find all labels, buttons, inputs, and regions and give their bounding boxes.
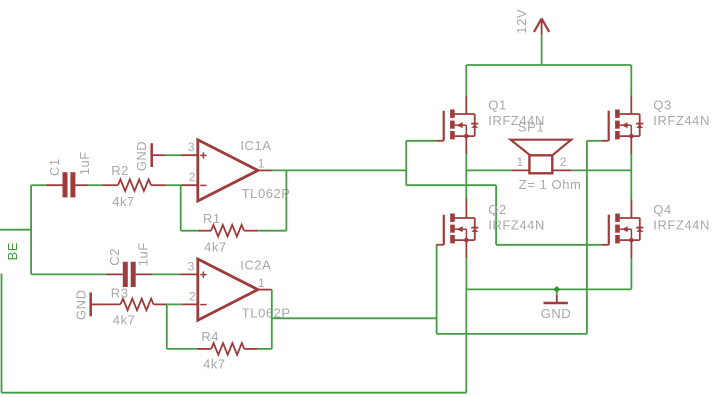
- wire C1 to R2: [88, 184, 103, 186]
- wire C2 to IC2A pin3: [152, 273, 179, 275]
- svg-text:IC1A: IC1A: [240, 138, 271, 153]
- wire 12V stem: [541, 35, 543, 65]
- svg-text:TL062P: TL062P: [242, 186, 291, 201]
- svg-text:IRFZ44N: IRFZ44N: [653, 113, 710, 128]
- svg-text:Q4: Q4: [653, 202, 671, 217]
- svg-text:GND: GND: [541, 306, 572, 321]
- svg-text:Q3: Q3: [653, 98, 671, 113]
- transistor Q3: [601, 95, 643, 154]
- svg-text:Q1: Q1: [488, 98, 506, 113]
- svg-text:4k7: 4k7: [113, 313, 136, 328]
- wire IC2A output branch: [272, 317, 437, 319]
- wire to Q1 gate: [406, 140, 436, 142]
- svg-text:C2: C2: [107, 248, 122, 266]
- junction dot at GND tap: [553, 286, 560, 293]
- wire IC1A output: [272, 169, 407, 171]
- wire down to Q4 gate row: [495, 185, 497, 245]
- wire gate net bottom leg: [437, 333, 587, 335]
- svg-text:R4: R4: [201, 329, 219, 344]
- wire R3 to IC2A pin2: [166, 303, 182, 305]
- svg-text:R2: R2: [111, 163, 129, 178]
- svg-text:C1: C1: [47, 158, 62, 176]
- wire speaker pin1: [466, 169, 511, 171]
- wire Q2 gate vertical: [436, 245, 438, 334]
- svg-text:1: 1: [258, 157, 265, 171]
- svg-text:4k7: 4k7: [203, 357, 226, 372]
- svg-text:1uF: 1uF: [136, 242, 151, 266]
- svg-text:IC2A: IC2A: [240, 258, 271, 273]
- ground symbol at IC1A pin3: [152, 143, 165, 167]
- wire Q3 source to Q4 drain: [630, 154, 632, 199]
- wire Q2 source: [465, 258, 467, 289]
- wire Q4 source: [630, 258, 632, 289]
- svg-text:2: 2: [560, 155, 567, 169]
- wire top supply bus: [466, 64, 631, 66]
- wire C2 row: [31, 273, 106, 275]
- wire GND down leg: [465, 289, 467, 392]
- wire Q1 drain: [465, 65, 467, 95]
- svg-text:1: 1: [258, 276, 265, 290]
- resistor R4: [197, 343, 257, 355]
- wire output branch vertical: [405, 141, 407, 185]
- wire R4 row left: [167, 348, 197, 350]
- wire bottom rail: [2, 392, 467, 394]
- op-amp IC1A: [181, 140, 272, 201]
- op-amp IC2A: [179, 259, 272, 320]
- svg-text:GND: GND: [74, 289, 89, 320]
- wire Q3 drain: [630, 65, 632, 95]
- wire output lower branch: [406, 184, 496, 186]
- wire rail left vertical: [1, 274, 3, 393]
- wire BE vertical: [30, 185, 32, 274]
- svg-text:Q2: Q2: [488, 202, 506, 217]
- svg-text:SP1: SP1: [518, 119, 544, 134]
- wire Q1 source to Q2 drain: [465, 154, 467, 199]
- svg-text:Z= 1 Ohm: Z= 1 Ohm: [519, 177, 582, 192]
- svg-text:IRFZ44N: IRFZ44N: [653, 218, 710, 233]
- svg-text:1uF: 1uF: [77, 151, 92, 175]
- wire R1 feedback vertical to output: [285, 170, 287, 230]
- svg-text:4k7: 4k7: [204, 240, 227, 255]
- node BE stub wire: [0, 229, 31, 231]
- capacitor C2: [107, 262, 153, 287]
- resistor R3: [104, 299, 166, 311]
- wire IC1A pin2 feedback vertical: [180, 185, 182, 231]
- speaker SP1: [511, 140, 572, 174]
- wire C1 row left: [31, 184, 46, 186]
- capacitor C1: [46, 172, 88, 197]
- svg-text:2: 2: [189, 289, 196, 303]
- wire to Q4 gate: [496, 244, 601, 246]
- svg-text:4k7: 4k7: [112, 194, 135, 209]
- svg-text:GND: GND: [134, 141, 149, 172]
- supply +12V symbol: [534, 19, 549, 36]
- svg-text:12V: 12V: [514, 9, 529, 34]
- wire GND to IC1A pin3: [165, 154, 181, 156]
- wire source bus: [466, 288, 631, 290]
- svg-text:BE: BE: [5, 242, 20, 260]
- wire to Q3 gate: [587, 140, 601, 142]
- wire R1 row left: [181, 230, 198, 232]
- ground symbol at R3: [91, 293, 105, 317]
- wire speaker pin2: [571, 169, 631, 171]
- ground symbol GND (bus): [544, 296, 568, 304]
- svg-text:R3: R3: [111, 286, 129, 301]
- wire R1 row right: [258, 230, 286, 232]
- svg-text:3: 3: [188, 140, 195, 154]
- wire IC2A output vertical: [271, 290, 273, 349]
- svg-text:1: 1: [517, 155, 524, 169]
- resistor R2: [103, 179, 166, 191]
- transistor Q4: [601, 199, 643, 258]
- svg-text:3: 3: [188, 259, 195, 273]
- wire gate net right vertical: [586, 141, 588, 334]
- svg-text:2: 2: [189, 170, 196, 184]
- wire GND stub: [556, 289, 558, 296]
- svg-text:IRFZ44N: IRFZ44N: [488, 218, 545, 233]
- svg-text:R1: R1: [203, 211, 221, 226]
- transistor Q2: [436, 199, 478, 258]
- wire R4 row right: [257, 348, 272, 350]
- resistor R1: [198, 225, 258, 237]
- wire R2 to IC1A pin2: [165, 184, 181, 186]
- wire IC2A pin2 feedback vertical: [166, 304, 168, 349]
- transistor Q1: [436, 95, 478, 154]
